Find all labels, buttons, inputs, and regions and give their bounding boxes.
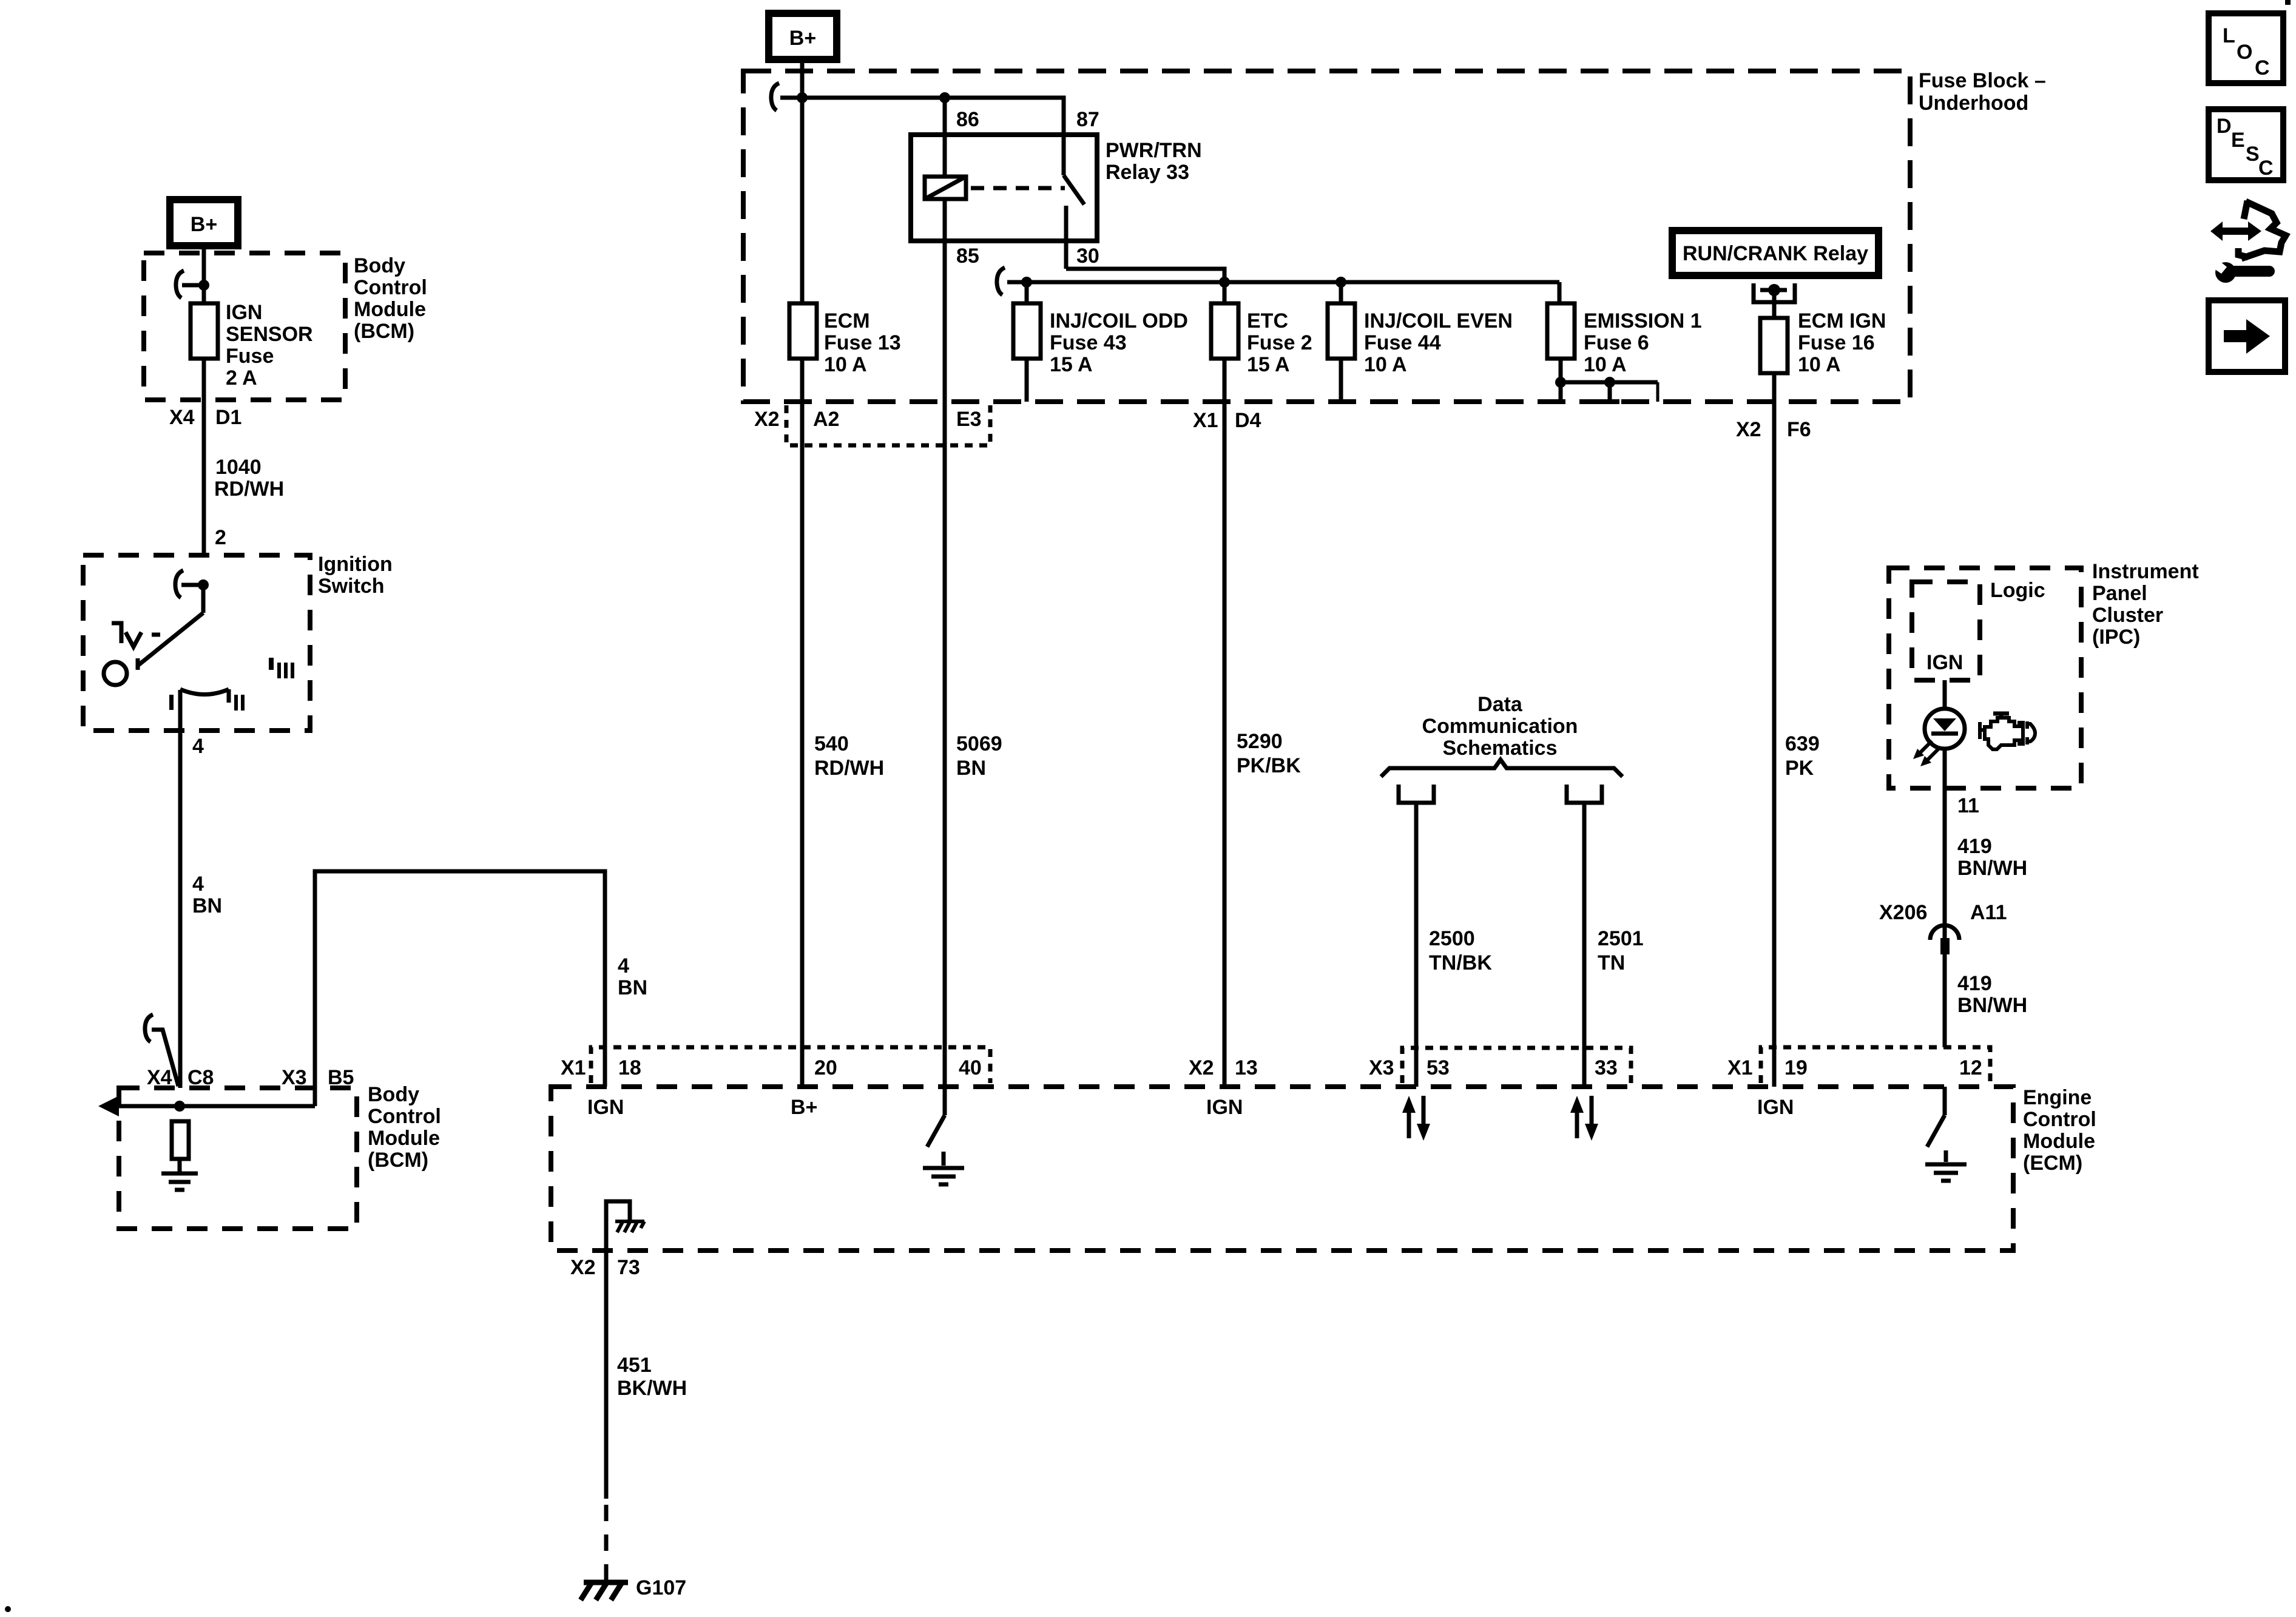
svg-text:S: S	[2246, 143, 2260, 166]
svg-text:Control: Control	[354, 276, 427, 299]
svg-text:10 A: 10 A	[1364, 353, 1407, 376]
svg-text:Cluster: Cluster	[2092, 604, 2163, 627]
svg-text:A11: A11	[1970, 901, 2007, 924]
svg-text:Fuse 43: Fuse 43	[1050, 331, 1127, 354]
svg-text:BN: BN	[192, 894, 222, 917]
svg-text:Logic: Logic	[1990, 579, 2045, 602]
svg-text:15 A: 15 A	[1247, 353, 1290, 376]
svg-text:X2: X2	[1736, 418, 1761, 441]
svg-text:IGN: IGN	[1757, 1096, 1794, 1119]
svg-text:PK/BK: PK/BK	[1237, 754, 1301, 777]
svg-text:X3: X3	[282, 1066, 307, 1089]
svg-text:D4: D4	[1235, 409, 1261, 432]
svg-text:Fuse 16: Fuse 16	[1798, 331, 1875, 354]
svg-text:10 A: 10 A	[1584, 353, 1627, 376]
svg-text:30: 30	[1076, 245, 1099, 268]
svg-text:(IPC): (IPC)	[2092, 626, 2140, 649]
svg-text:IGN: IGN	[1206, 1096, 1243, 1119]
svg-text:2500: 2500	[1429, 927, 1475, 950]
svg-text:IGN: IGN	[1926, 651, 1963, 674]
svg-text:Communication: Communication	[1422, 715, 1578, 738]
svg-text:B5: B5	[328, 1066, 354, 1089]
svg-text:87: 87	[1076, 108, 1099, 131]
svg-text:20: 20	[814, 1056, 837, 1079]
svg-text:(ECM): (ECM)	[2023, 1152, 2082, 1175]
svg-text:RD/WH: RD/WH	[814, 757, 884, 780]
svg-text:419: 419	[1957, 972, 1992, 995]
svg-text:18: 18	[618, 1056, 641, 1079]
svg-text:Fuse 13: Fuse 13	[824, 331, 901, 354]
svg-text:Control: Control	[368, 1105, 441, 1128]
svg-text:Relay 33: Relay 33	[1106, 161, 1189, 184]
svg-text:IGN: IGN	[587, 1096, 624, 1119]
svg-text:Fuse 2: Fuse 2	[1247, 331, 1312, 354]
svg-text:Body: Body	[354, 254, 405, 277]
svg-text:85: 85	[956, 245, 979, 268]
svg-text:PK: PK	[1785, 757, 1814, 780]
svg-text:540: 540	[814, 732, 849, 755]
svg-text:X2: X2	[754, 408, 780, 431]
svg-text:Body: Body	[368, 1083, 419, 1106]
svg-text:SENSOR: SENSOR	[226, 323, 313, 346]
svg-text:X1: X1	[1727, 1056, 1753, 1079]
svg-text:G107: G107	[636, 1576, 686, 1599]
svg-text:Module: Module	[368, 1127, 440, 1150]
svg-text:40: 40	[959, 1056, 982, 1079]
svg-text:15 A: 15 A	[1050, 353, 1093, 376]
svg-text:X4: X4	[147, 1066, 172, 1089]
svg-text:Fuse Block –: Fuse Block –	[1919, 69, 2046, 92]
svg-text:4: 4	[192, 873, 204, 896]
svg-text:53: 53	[1427, 1056, 1450, 1079]
svg-text:(BCM): (BCM)	[368, 1149, 428, 1172]
svg-text:2: 2	[215, 526, 226, 549]
svg-text:Panel: Panel	[2092, 582, 2147, 605]
svg-text:B+: B+	[791, 1096, 817, 1119]
svg-text:Fuse 6: Fuse 6	[1584, 331, 1649, 354]
svg-text:33: 33	[1595, 1056, 1618, 1079]
svg-text:C: C	[2255, 56, 2270, 79]
svg-text:Module: Module	[2023, 1130, 2095, 1153]
svg-text:1040: 1040	[215, 456, 262, 479]
svg-text:ECM IGN: ECM IGN	[1798, 309, 1886, 333]
svg-text:E3: E3	[956, 408, 982, 431]
svg-text:X2: X2	[1189, 1056, 1214, 1079]
svg-text:BN: BN	[956, 757, 986, 780]
svg-text:RD/WH: RD/WH	[214, 478, 284, 501]
svg-text:10 A: 10 A	[824, 353, 867, 376]
svg-text:BK/WH: BK/WH	[617, 1377, 687, 1400]
svg-text:BN/WH: BN/WH	[1957, 994, 2027, 1017]
svg-text:C: C	[2258, 157, 2274, 180]
svg-text:INJ/COIL ODD: INJ/COIL ODD	[1050, 309, 1188, 333]
svg-text:B+: B+	[789, 27, 816, 50]
svg-text:5290: 5290	[1237, 730, 1283, 753]
svg-text:Ignition: Ignition	[318, 553, 393, 576]
svg-text:12: 12	[1959, 1056, 1982, 1079]
svg-text:E: E	[2231, 129, 2245, 152]
svg-text:Switch: Switch	[318, 575, 385, 598]
svg-text:A2: A2	[813, 408, 839, 431]
svg-text:TN: TN	[1598, 951, 1625, 974]
svg-text:4: 4	[192, 735, 204, 758]
svg-text:O: O	[2237, 41, 2252, 64]
svg-text:639: 639	[1785, 732, 1820, 755]
svg-text:X2: X2	[570, 1256, 596, 1279]
svg-text:D: D	[2217, 115, 2232, 138]
svg-text:2 A: 2 A	[226, 366, 257, 390]
svg-text:73: 73	[617, 1256, 640, 1279]
svg-text:EMISSION 1: EMISSION 1	[1584, 309, 1702, 333]
svg-text:Data: Data	[1477, 693, 1523, 716]
svg-text:INJ/COIL EVEN: INJ/COIL EVEN	[1364, 309, 1513, 333]
svg-text:RUN/CRANK Relay: RUN/CRANK Relay	[1683, 242, 1868, 265]
svg-text:451: 451	[617, 1354, 652, 1377]
svg-text:19: 19	[1784, 1056, 1808, 1079]
svg-text:ETC: ETC	[1247, 309, 1288, 333]
svg-text:D1: D1	[215, 406, 241, 429]
svg-text:4: 4	[618, 954, 629, 977]
svg-text:X1: X1	[1193, 409, 1218, 432]
svg-text:BN: BN	[618, 976, 647, 999]
svg-text:X1: X1	[561, 1056, 586, 1079]
svg-text:PWR/TRN: PWR/TRN	[1106, 139, 1202, 162]
svg-text:F6: F6	[1787, 418, 1811, 441]
svg-text:BN/WH: BN/WH	[1957, 857, 2027, 880]
svg-text:10 A: 10 A	[1798, 353, 1841, 376]
svg-text:Schematics: Schematics	[1443, 737, 1558, 760]
svg-text:X206: X206	[1879, 901, 1927, 924]
svg-text:419: 419	[1957, 835, 1992, 858]
svg-text:C8: C8	[187, 1066, 214, 1089]
svg-text:Fuse: Fuse	[226, 345, 274, 368]
svg-text:Module: Module	[354, 298, 426, 321]
svg-text:Control: Control	[2023, 1108, 2096, 1131]
svg-text:Instrument: Instrument	[2092, 560, 2199, 583]
svg-text:2501: 2501	[1598, 927, 1644, 950]
svg-text:13: 13	[1235, 1056, 1258, 1079]
svg-text:Engine: Engine	[2023, 1086, 2092, 1109]
svg-text:86: 86	[956, 108, 979, 131]
svg-text:X3: X3	[1369, 1056, 1394, 1079]
svg-text:X4: X4	[169, 406, 195, 429]
svg-text:ECM: ECM	[824, 309, 870, 333]
svg-text:TN/BK: TN/BK	[1429, 951, 1492, 974]
svg-text:IGN: IGN	[226, 301, 262, 324]
svg-text:Underhood: Underhood	[1919, 92, 2028, 115]
svg-text:B+: B+	[191, 213, 217, 236]
svg-text:Fuse 44: Fuse 44	[1364, 331, 1441, 354]
svg-text:5069: 5069	[956, 732, 1002, 755]
svg-text:L: L	[2223, 24, 2235, 47]
svg-text:(BCM): (BCM)	[354, 320, 414, 343]
svg-text:11: 11	[1957, 794, 1979, 817]
